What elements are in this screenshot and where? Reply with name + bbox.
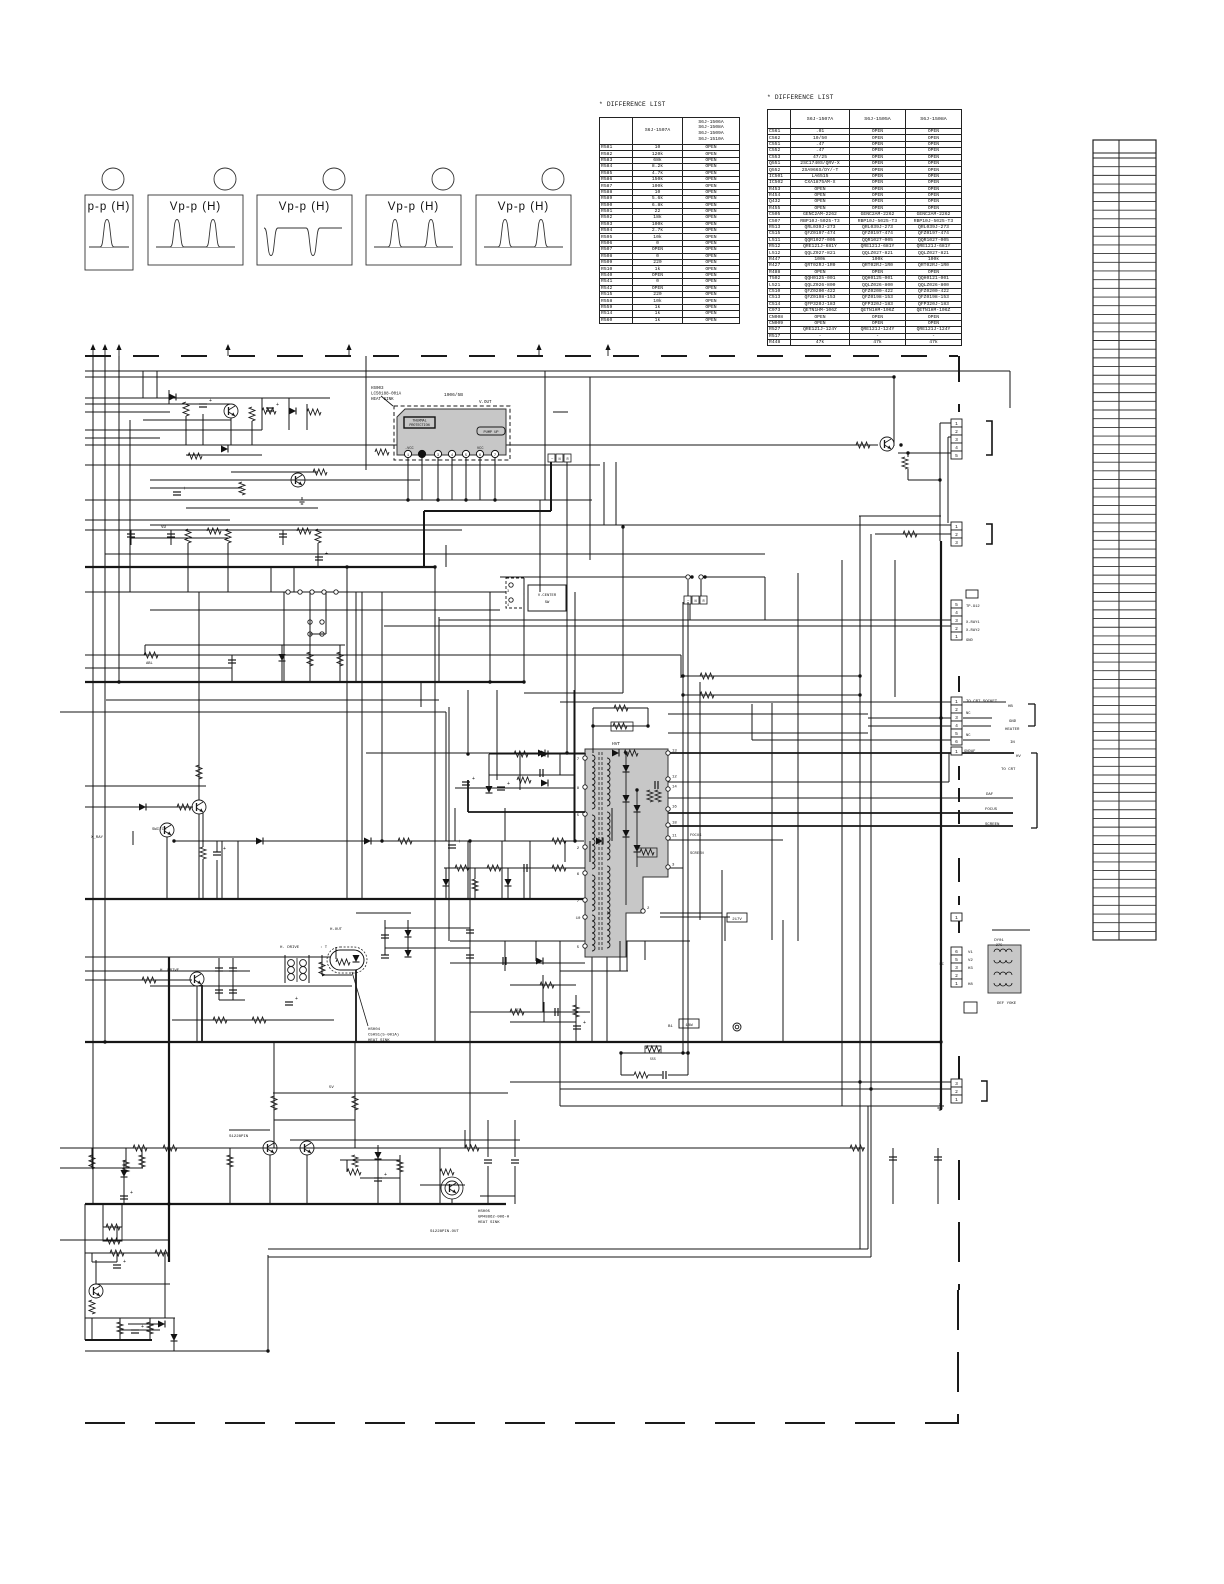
svg-text:X-RAY2: X-RAY2 (966, 629, 980, 633)
svg-text:3: 3 (955, 1081, 958, 1087)
svg-text:2: 2 (955, 707, 958, 713)
svg-text:HEAT SINK: HEAT SINK (368, 1039, 390, 1043)
svg-text:Vp-p (H): Vp-p (H) (388, 201, 439, 213)
svg-text:5V: 5V (329, 1086, 334, 1090)
svg-text:PUMP UP: PUMP UP (483, 431, 498, 435)
svg-text:TO CRT: TO CRT (1001, 768, 1016, 772)
svg-text:SCREEN: SCREEN (690, 852, 704, 856)
svg-text:5: 5 (955, 602, 958, 608)
svg-text:DEF YOKE: DEF YOKE (997, 1002, 1017, 1006)
svg-text:5: 5 (955, 957, 958, 963)
svg-text:X-RAY1: X-RAY1 (966, 621, 980, 625)
svg-text:13: 13 (672, 750, 677, 754)
svg-text:SW: SW (545, 601, 550, 605)
svg-text:GND: GND (1009, 720, 1017, 724)
svg-text:+: + (130, 1190, 133, 1196)
svg-text:HS004: HS004 (368, 1028, 381, 1032)
svg-text:NC: NC (939, 963, 944, 967)
svg-text:33: 33 (516, 1009, 520, 1013)
svg-text:+: + (325, 551, 328, 557)
svg-text:Vp-p (H): Vp-p (H) (170, 201, 221, 213)
svg-text:HS003: HS003 (371, 387, 384, 391)
svg-text:N: N (695, 600, 697, 604)
svg-text:2: 2 (955, 532, 958, 538)
svg-text:12: 12 (672, 776, 677, 780)
svg-text:V.CENTER: V.CENTER (538, 594, 557, 598)
svg-text:5: 5 (577, 814, 580, 818)
svg-text:5: 5 (955, 731, 958, 737)
svg-text:IN: IN (1010, 741, 1015, 745)
svg-text:+: + (276, 402, 279, 408)
svg-text:5: 5 (955, 453, 958, 459)
svg-text:C5HS1(5-001A): C5HS1(5-001A) (368, 1033, 399, 1038)
svg-text:555: 555 (650, 1057, 656, 1061)
svg-text:2: 2 (955, 626, 958, 632)
svg-text:HV: HV (1016, 755, 1021, 759)
svg-text:ABL: ABL (146, 662, 154, 666)
svg-text:+: + (507, 781, 510, 787)
svg-text:4: 4 (507, 604, 509, 608)
svg-text:5: 5 (577, 946, 580, 950)
svg-text:1: 1 (955, 915, 958, 921)
svg-text:1906/5B: 1906/5B (444, 392, 463, 398)
svg-text:11: 11 (672, 835, 677, 839)
svg-text:3: 3 (955, 437, 958, 443)
svg-text:TP-912: TP-912 (966, 605, 980, 609)
svg-text:10: 10 (576, 917, 581, 921)
svg-text:6: 6 (955, 739, 958, 745)
svg-text:1: 1 (955, 524, 958, 530)
svg-text:18: 18 (672, 822, 677, 826)
svg-text:27C: 27C (996, 944, 1002, 948)
svg-text:1: 1 (955, 421, 958, 427)
svg-text:H. DRIVE: H. DRIVE (160, 969, 180, 973)
svg-text:VCC: VCC (477, 447, 483, 451)
svg-text:GM48862-006-H: GM48862-006-H (478, 1216, 510, 1220)
svg-text:DY01: DY01 (994, 939, 1004, 943)
svg-text:DAF: DAF (986, 793, 994, 797)
svg-text:8: 8 (577, 787, 580, 791)
svg-text:-VCC: -VCC (405, 447, 414, 451)
svg-text:3: 3 (955, 715, 958, 721)
svg-text:HS005: HS005 (478, 1210, 491, 1214)
svg-text:14: 14 (672, 786, 677, 790)
svg-text:H-OUT: H-OUT (330, 928, 343, 932)
svg-text:FOCUS: FOCUS (690, 834, 702, 838)
svg-text:3: 3 (955, 965, 958, 971)
svg-text:+: + (123, 1259, 126, 1265)
svg-text:3: 3 (955, 618, 958, 624)
svg-text:+: + (583, 1020, 586, 1026)
svg-text:V1: V1 (968, 951, 973, 955)
svg-text:1: 1 (955, 749, 958, 755)
svg-text:7: 7 (494, 454, 496, 458)
svg-text:4: 4 (955, 610, 958, 616)
svg-text:3: 3 (507, 590, 509, 594)
svg-text:2: 2 (647, 907, 650, 911)
svg-text:S1228PIN.OUT: S1228PIN.OUT (430, 1230, 459, 1234)
svg-text:4: 4 (955, 723, 958, 729)
svg-text:1: 1 (955, 699, 958, 705)
svg-text:HB: HB (1008, 705, 1013, 709)
svg-text:SCREEN: SCREEN (985, 823, 1000, 827)
svg-text:LC50188-001A: LC50188-001A (371, 393, 402, 397)
svg-text:2: 2 (955, 973, 958, 979)
svg-text:+: + (472, 776, 475, 782)
svg-text:: T: : T (320, 946, 328, 950)
svg-text:+: + (209, 398, 212, 404)
svg-text:FOCUS: FOCUS (985, 808, 998, 812)
svg-text:X_RAY: X_RAY (91, 836, 104, 840)
svg-text:H8: H8 (968, 983, 973, 987)
svg-text:+: + (183, 486, 186, 492)
svg-text:GNDAF: GNDAF (964, 750, 976, 754)
svg-text:6: 6 (577, 873, 580, 877)
svg-text:+: + (141, 1324, 144, 1330)
svg-text:+: + (384, 1172, 387, 1178)
svg-text:3: 3 (672, 864, 675, 868)
svg-text:+: + (295, 996, 298, 1002)
svg-text:Vp-p (H): Vp-p (H) (279, 201, 330, 213)
svg-text:HVT: HVT (612, 741, 620, 747)
svg-text:2: 2 (955, 1089, 958, 1095)
svg-text:V2: V2 (968, 959, 973, 963)
svg-text:1: 1 (955, 1097, 958, 1103)
svg-text:N: N (559, 458, 561, 462)
svg-text:S1228PIN: S1228PIN (229, 1135, 249, 1139)
svg-text:7: 7 (577, 758, 580, 762)
svg-text:Vp-p (H): Vp-p (H) (498, 201, 549, 213)
svg-text:NC: NC (966, 734, 971, 738)
svg-text:VD: VD (161, 526, 167, 530)
svg-text:6: 6 (955, 949, 958, 955)
svg-text:16: 16 (672, 806, 677, 810)
svg-text:GND: GND (966, 639, 974, 643)
svg-text:HEAT SINK: HEAT SINK (478, 1221, 500, 1225)
svg-text:HEAT SINK: HEAT SINK (371, 398, 394, 402)
svg-text:NC: NC (966, 712, 971, 716)
svg-text:+: + (458, 839, 461, 845)
svg-text:B1: B1 (668, 1025, 673, 1029)
svg-text:2: 2 (955, 429, 958, 435)
svg-text:H3: H3 (968, 967, 973, 971)
svg-text:HEATER: HEATER (1005, 728, 1020, 732)
svg-text:V.OUT: V.OUT (479, 401, 492, 405)
svg-text:3: 3 (955, 540, 958, 546)
svg-text:2: 2 (577, 847, 580, 851)
svg-text:+: + (223, 846, 226, 852)
svg-text:1: 1 (955, 634, 958, 640)
svg-text:PROTECTION: PROTECTION (409, 424, 429, 428)
svg-text:1: 1 (955, 981, 958, 987)
svg-text:p-p (H): p-p (H) (88, 201, 131, 213)
svg-text:7: 7 (577, 900, 580, 904)
svg-text:H. DRIVE: H. DRIVE (280, 946, 300, 950)
svg-text:18W: 18W (685, 1024, 693, 1028)
svg-text:217V: 217V (732, 918, 742, 922)
svg-text:4: 4 (955, 445, 958, 451)
